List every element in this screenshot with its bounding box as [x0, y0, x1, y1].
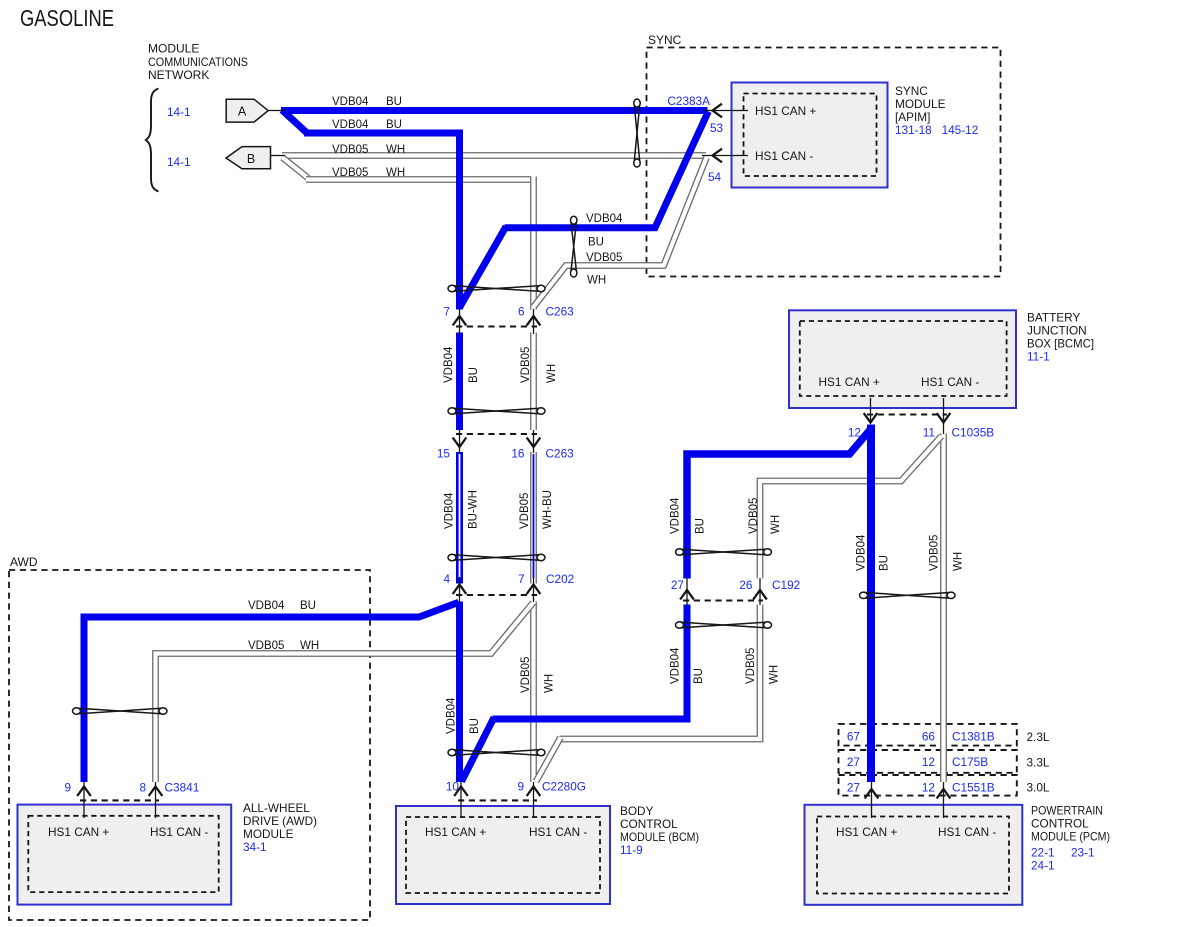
svg-text:SYNC: SYNC: [895, 84, 928, 98]
svg-text:9: 9: [517, 780, 524, 794]
svg-text:WH: WH: [546, 364, 558, 383]
svg-text:BU: BU: [879, 555, 891, 571]
svg-text:HS1 CAN -: HS1 CAN -: [529, 825, 587, 839]
svg-text:MODULE: MODULE: [243, 827, 294, 841]
svg-text:A: A: [238, 104, 247, 118]
svg-text:54: 54: [708, 170, 722, 184]
svg-text:VDB04: VDB04: [332, 96, 369, 108]
svg-text:HS1 CAN -: HS1 CAN -: [755, 149, 813, 163]
svg-text:CONTROL: CONTROL: [620, 817, 678, 831]
svg-text:WH: WH: [770, 515, 782, 534]
svg-text:BODY: BODY: [620, 804, 654, 818]
svg-text:VDB05: VDB05: [520, 657, 532, 693]
svg-text:WH: WH: [953, 552, 965, 571]
svg-text:BU: BU: [386, 119, 402, 131]
svg-text:AWD: AWD: [10, 555, 38, 569]
svg-text:27: 27: [847, 781, 860, 795]
svg-text:34-1: 34-1: [243, 840, 267, 854]
svg-text:10: 10: [446, 780, 460, 794]
svg-text:B: B: [247, 152, 255, 166]
svg-text:BU: BU: [588, 237, 604, 249]
svg-text:VDB05: VDB05: [748, 498, 760, 534]
svg-text:MODULE (PCM): MODULE (PCM): [1031, 830, 1110, 844]
svg-text:12: 12: [922, 755, 935, 769]
svg-text:ALL-WHEEL: ALL-WHEEL: [243, 801, 310, 815]
svg-text:POWERTRAIN: POWERTRAIN: [1031, 804, 1103, 818]
svg-text:BATTERY: BATTERY: [1027, 311, 1080, 325]
svg-text:3.0L: 3.0L: [1027, 781, 1050, 795]
svg-text:6: 6: [518, 305, 525, 319]
svg-text:9: 9: [64, 781, 71, 795]
svg-text:VDB05: VDB05: [332, 144, 368, 156]
svg-text:VDB05: VDB05: [745, 648, 757, 684]
svg-text:WH: WH: [386, 144, 405, 156]
svg-text:22-1 23-1: 22-1 23-1: [1031, 846, 1095, 860]
svg-text:2.3L: 2.3L: [1027, 730, 1050, 744]
svg-text:8: 8: [139, 781, 146, 795]
svg-text:BOX [BCMC]: BOX [BCMC]: [1027, 337, 1094, 351]
svg-text:HS1 CAN +: HS1 CAN +: [425, 825, 486, 839]
svg-text:JUNCTION: JUNCTION: [1027, 324, 1087, 338]
svg-text:[APIM]: [APIM]: [895, 110, 930, 124]
svg-text:HS1 CAN +: HS1 CAN +: [48, 825, 109, 839]
svg-text:C263: C263: [546, 305, 575, 319]
svg-text:WH: WH: [587, 275, 606, 287]
svg-text:7: 7: [518, 572, 525, 586]
svg-text:C202: C202: [546, 572, 574, 586]
svg-text:VDB04: VDB04: [444, 492, 456, 529]
svg-text:HS1 CAN +: HS1 CAN +: [755, 104, 816, 118]
svg-text:11-1: 11-1: [1027, 350, 1050, 364]
svg-text:WH: WH: [386, 167, 405, 179]
svg-text:DRIVE (AWD): DRIVE (AWD): [243, 814, 317, 828]
svg-text:11: 11: [923, 426, 935, 440]
svg-text:VDB04: VDB04: [248, 600, 285, 612]
svg-text:C1381B: C1381B: [952, 730, 995, 744]
svg-text:C1551B: C1551B: [952, 781, 995, 795]
svg-text:14-1: 14-1: [167, 105, 191, 119]
svg-text:7: 7: [443, 305, 450, 319]
svg-text:VDB04: VDB04: [670, 497, 682, 534]
svg-text:11-9: 11-9: [620, 843, 643, 857]
svg-text:26: 26: [739, 578, 753, 592]
svg-text:VDB05: VDB05: [586, 252, 622, 264]
svg-text:12: 12: [848, 426, 861, 440]
svg-text:53: 53: [710, 121, 724, 135]
svg-text:WH: WH: [300, 640, 319, 652]
svg-text:VDB05: VDB05: [520, 347, 532, 383]
svg-text:VDB05: VDB05: [929, 535, 941, 571]
svg-text:CONTROL: CONTROL: [1031, 817, 1089, 831]
svg-text:131-18 145-12: 131-18 145-12: [895, 123, 978, 137]
svg-text:HS1 CAN +: HS1 CAN +: [819, 375, 880, 389]
svg-text:BU: BU: [386, 96, 402, 108]
svg-text:12: 12: [922, 781, 935, 795]
svg-text:COMMUNICATIONS: COMMUNICATIONS: [148, 55, 248, 69]
svg-text:VDB04: VDB04: [443, 346, 455, 383]
svg-text:16: 16: [511, 447, 525, 461]
svg-text:VDB05: VDB05: [332, 167, 368, 179]
svg-text:VDB04: VDB04: [670, 647, 682, 684]
svg-text:C192: C192: [772, 578, 800, 592]
svg-text:VDB04: VDB04: [586, 213, 623, 225]
svg-text:4: 4: [443, 572, 450, 586]
svg-text:BU: BU: [468, 367, 480, 383]
svg-text:SYNC: SYNC: [648, 33, 682, 47]
svg-text:VDB05: VDB05: [519, 493, 531, 529]
svg-text:WH: WH: [769, 665, 781, 684]
svg-text:HS1 CAN +: HS1 CAN +: [836, 825, 897, 839]
svg-text:C175B: C175B: [952, 755, 988, 769]
svg-text:VDB04: VDB04: [332, 119, 369, 131]
svg-text:14-1: 14-1: [167, 155, 191, 169]
svg-text:BU-WH: BU-WH: [468, 490, 480, 529]
svg-text:BU: BU: [693, 668, 705, 684]
svg-text:NETWORK: NETWORK: [148, 68, 209, 82]
svg-text:VDB04: VDB04: [856, 534, 868, 571]
svg-text:24-1: 24-1: [1031, 859, 1055, 873]
svg-text:C2280G: C2280G: [542, 780, 586, 794]
svg-text:BU: BU: [300, 600, 316, 612]
svg-text:C2383A: C2383A: [667, 94, 710, 108]
svg-text:MODULE: MODULE: [895, 97, 946, 111]
svg-text:27: 27: [671, 578, 684, 592]
svg-text:HS1 CAN -: HS1 CAN -: [938, 825, 996, 839]
svg-text:C263: C263: [546, 447, 575, 461]
svg-text:VDB04: VDB04: [446, 697, 458, 734]
svg-text:MODULE (BCM): MODULE (BCM): [620, 830, 699, 844]
svg-text:WH: WH: [544, 674, 556, 693]
svg-text:15: 15: [437, 447, 451, 461]
svg-text:HS1 CAN -: HS1 CAN -: [921, 375, 979, 389]
svg-text:VDB05: VDB05: [248, 640, 284, 652]
svg-text:GASOLINE: GASOLINE: [20, 5, 114, 31]
svg-text:HS1 CAN -: HS1 CAN -: [150, 825, 208, 839]
svg-text:66: 66: [922, 730, 936, 744]
svg-text:3.3L: 3.3L: [1027, 756, 1050, 770]
svg-text:MODULE: MODULE: [148, 42, 199, 56]
svg-text:C1035B: C1035B: [952, 426, 995, 440]
svg-text:BU: BU: [469, 718, 481, 734]
svg-text:C3841: C3841: [165, 781, 200, 795]
svg-text:27: 27: [847, 755, 860, 769]
svg-text:67: 67: [847, 730, 860, 744]
svg-text:WH-BU: WH-BU: [542, 490, 554, 529]
svg-text:BU: BU: [695, 518, 707, 534]
